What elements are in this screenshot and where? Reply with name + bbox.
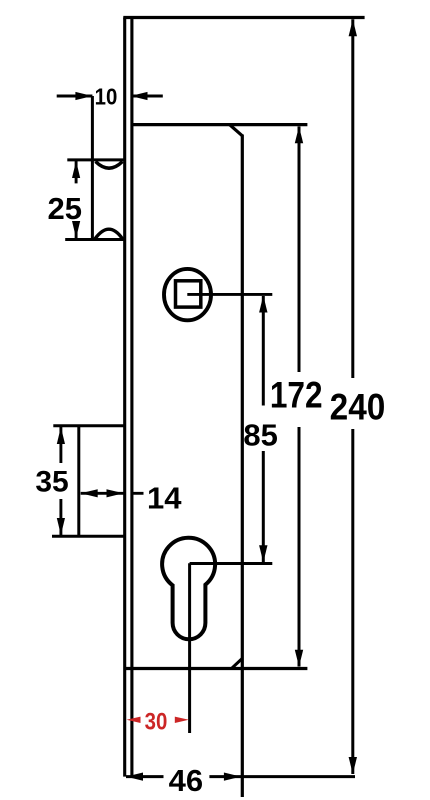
red arrowhead dim30 left [127, 717, 141, 723]
dim 35 line [59, 427, 62, 535]
dim 25 line [75, 161, 78, 238]
lock body top edge / 172 top extension line [131, 123, 308, 126]
arrowhead dim240 down [349, 757, 357, 774]
latch bottom edge / 25 bottom extension line [65, 238, 123, 241]
lock body bottom edge / 172 bottom extension line [126, 667, 308, 670]
chamfer top-right [230, 125, 243, 136]
svg-text:240: 240 [330, 385, 386, 427]
svg-text:35: 35 [35, 466, 68, 499]
chamfer bottom-right [232, 658, 243, 668]
dim 240 line [351, 19, 354, 774]
dim 10 left leader [57, 95, 93, 98]
arrowhead dim172 up [295, 126, 303, 143]
arrowhead dim46 right [224, 773, 241, 781]
arrowhead dim35 up [57, 427, 65, 444]
lock body right edge / 46 extension line [241, 135, 244, 798]
svg-text:25: 25 [48, 191, 82, 226]
svg-text:30: 30 [145, 709, 168, 736]
arrowhead dim14 right [107, 489, 124, 497]
faceplate top edge / 240 top extension line [123, 16, 364, 19]
arrowhead dim14 left [81, 489, 98, 497]
cylinder center vertical line (30 extension) [188, 563, 191, 733]
arrowhead dim25 down [72, 221, 80, 238]
arrowhead dim85 up [259, 296, 267, 313]
dim 85 line [262, 296, 265, 562]
follower square hole circle [164, 269, 211, 320]
dim 14 line [81, 492, 144, 495]
dim 46 line [126, 775, 355, 778]
extension line from follower center (85 top) [187, 293, 272, 296]
deadbolt top edge / 35 top extension line [53, 424, 124, 427]
arrowhead dim172 down [295, 650, 303, 667]
svg-text:46: 46 [169, 763, 203, 798]
latch top arc [96, 162, 123, 169]
latch bottom arc [95, 229, 123, 239]
follower square hole square [176, 281, 201, 307]
euro cylinder hole profile [162, 538, 215, 640]
arrowhead dim10 left-pointing at faceplate [131, 92, 148, 100]
arrowhead dim46 left [126, 773, 143, 781]
arrowhead dim10 right-pointing at latch face [75, 92, 92, 100]
arrowhead dim35 down [57, 518, 65, 535]
svg-text:10: 10 [95, 84, 118, 110]
deadbolt bottom edge / 35 bottom extension line [52, 535, 124, 538]
dim 172 line [298, 127, 301, 667]
svg-text:85: 85 [243, 417, 277, 452]
faceplate right edge [130, 18, 133, 777]
latch top edge / 25 top extension line [67, 158, 126, 161]
svg-text:172: 172 [270, 374, 323, 416]
red arrowhead dim30 right [175, 717, 189, 723]
svg-text:14: 14 [147, 481, 182, 516]
arrowhead dim240 up [349, 19, 357, 36]
arrowhead dim85 down [259, 545, 267, 562]
cylinder center horizontal extension line (85 bottom) [190, 562, 273, 565]
latch bolt front face / 10 extension line [91, 96, 94, 240]
faceplate left edge [123, 18, 126, 777]
deadbolt front face [77, 426, 80, 537]
dim 10 right leader [131, 95, 163, 98]
arrowhead dim25 up [72, 161, 80, 178]
